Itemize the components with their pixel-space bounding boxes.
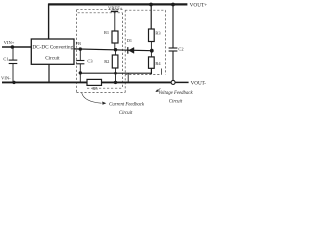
node open terminal VOUT- (171, 80, 175, 84)
node junction R3 / R4 on FB wire (150, 49, 154, 53)
svg-text:C3: C3 (87, 59, 93, 64)
capacitor C2 (172, 5, 174, 49)
wire to VOUT- label (175, 81, 188, 83)
node junction R1 / R2 on FB wire (114, 48, 117, 51)
svg-text:D1: D1 (127, 38, 132, 43)
node VREF+ terminal bar (111, 10, 118, 12)
wire riser top rail to R3 (150, 4, 152, 29)
svg-text:Circuit: Circuit (45, 55, 60, 61)
annotation arrow to voltage feedback box (158, 88, 161, 90)
capacitor C3 (79, 49, 81, 60)
node junction on top rail at C2 column (171, 3, 175, 7)
svg-text:Circuit: Circuit (169, 100, 183, 105)
node junction FB / C3 (79, 47, 82, 50)
wire stub at voltage box corner (160, 69, 162, 75)
dashed box Current Feedback Circuit (inner) (78, 13, 123, 88)
capacitor C1 (12, 47, 14, 60)
wire left riser from DC-DC box top to rail (48, 4, 50, 39)
svg-text:VOUT+: VOUT+ (190, 3, 207, 9)
wire R4 bottom lead to common rail (150, 68, 151, 73)
wire FB feedback line (74, 49, 152, 51)
DC-DC converting circuit block U1 (31, 39, 74, 64)
resistor R4 (150, 51, 152, 57)
node junction R2 / common rail (114, 72, 117, 75)
wire DC-DC box bottom drop (48, 65, 50, 83)
svg-text:C1: C1 (3, 57, 8, 62)
dashed box Voltage Feedback Circuit (125, 10, 165, 74)
wire drop common rail to bottom rail (127, 73, 129, 82)
wire VIN+ input (2, 46, 32, 48)
wire bottom return rail (2, 81, 171, 83)
resistor R5 current shunt (87, 79, 102, 85)
resistor R2 (115, 50, 117, 55)
node junction on top rail at R3 column (149, 3, 153, 7)
resistor R1 (112, 31, 118, 43)
svg-text:VOUT-: VOUT- (191, 80, 207, 86)
wire drop C3 junction to bottom rail (79, 73, 81, 83)
wire R3 bottom lead (150, 42, 152, 51)
wire R1 bottom lead (114, 43, 116, 50)
svg-text:VIN-: VIN- (1, 76, 11, 81)
svg-text:C2: C2 (178, 47, 183, 52)
wire feedback common rail (80, 72, 151, 74)
dashed box Current Feedback Circuit (outer) (76, 10, 125, 93)
svg-text:R1: R1 (104, 30, 109, 35)
node junction R2 / bottom rail (114, 81, 117, 84)
svg-text:Voltage Feedback: Voltage Feedback (158, 91, 193, 96)
node junction C1 / bottom rail (12, 81, 15, 84)
resistor R3 (149, 29, 155, 42)
diode D1 (127, 47, 129, 54)
svg-text:Circuit: Circuit (119, 111, 133, 116)
wire top output rail (48, 3, 187, 5)
svg-text:VREF+: VREF+ (108, 6, 123, 11)
svg-text:R2: R2 (104, 59, 109, 64)
svg-text:R3: R3 (155, 30, 161, 35)
node junction VIN+ / C1 (11, 45, 15, 49)
svg-text:R4: R4 (155, 61, 161, 66)
annotation arrow to current feedback box (82, 93, 102, 103)
svg-text:VIN+: VIN+ (4, 40, 15, 45)
svg-text:FB: FB (76, 41, 81, 46)
svg-text:Current Feedback: Current Feedback (109, 102, 145, 107)
wire VREF+ to R1 (114, 11, 116, 31)
node junction C3 / feedback common rail (79, 71, 82, 74)
svg-text:DC-DC Converting: DC-DC Converting (32, 44, 73, 50)
svg-text:R5: R5 (92, 86, 98, 91)
